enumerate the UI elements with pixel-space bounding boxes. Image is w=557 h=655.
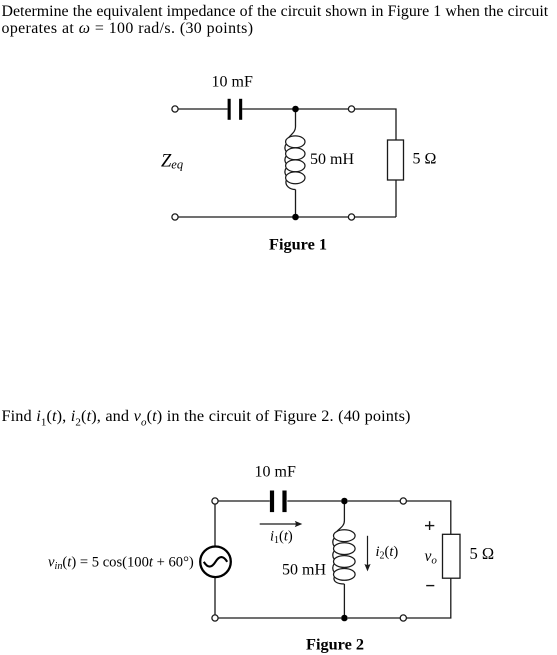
wire top middle (capacitor to right terminal) — [242, 108, 348, 110]
source sine wave — [204, 557, 227, 567]
problem 2 statement — [2, 406, 411, 428]
wire inductor bottom lead (fig2) — [343, 584, 345, 618]
svg-text:50 mH: 50 mH — [310, 151, 354, 168]
node junction top (fig2) — [341, 498, 348, 505]
arrow i2 — [364, 536, 370, 572]
wire top left (terminal to capacitor) — [178, 108, 227, 110]
svg-text:5 Ω: 5 Ω — [413, 151, 437, 168]
terminal top-right (fig2) — [400, 498, 406, 504]
capacitor C1 10 mF plate 1 — [228, 99, 231, 120]
wire inductor top lead — [295, 109, 297, 127]
terminal bottom-left — [172, 214, 178, 220]
node junction bottom — [292, 214, 299, 221]
wire top right segment — [355, 109, 396, 140]
capacitor C2 10 mF plate 1 — [270, 491, 274, 513]
inductor L2 50 mH coil (fig2) — [333, 521, 355, 585]
svg-text:5 Ω: 5 Ω — [470, 544, 495, 563]
svg-text:10 mF: 10 mF — [212, 74, 253, 91]
arrow i1 — [260, 521, 303, 527]
svg-text:i2(t): i2(t) — [376, 544, 399, 562]
wire right lower segment — [395, 180, 397, 217]
source Vin circle — [200, 547, 231, 578]
svg-text:10 mF: 10 mF — [255, 464, 296, 481]
node junction top — [292, 106, 299, 113]
svg-text:i1(t): i1(t) — [270, 529, 293, 547]
wire source top lead — [214, 504, 216, 545]
wire bottom — [178, 216, 348, 218]
wire bottom right — [355, 216, 396, 218]
svg-text:vo: vo — [425, 548, 438, 567]
terminal bottom-right (fig2) — [400, 615, 406, 621]
svg-text:Figure 1: Figure 1 — [269, 235, 327, 254]
svg-text:50 mH: 50 mH — [282, 562, 326, 579]
terminal top-left — [172, 106, 178, 112]
terminal bottom-middle — [348, 214, 354, 220]
wire bottom left — [218, 617, 341, 619]
svg-text:vin(t) = 5 cos(100t + 60°): vin(t) = 5 cos(100t + 60°) — [48, 555, 194, 573]
capacitor C2 10 mF plate 2 — [282, 491, 286, 513]
wire top right corner — [406, 501, 450, 534]
terminal bottom-left (fig2) — [212, 615, 218, 621]
label minus sign — [426, 585, 434, 587]
wire inductor top lead (fig2) — [343, 501, 345, 521]
wire top middle — [287, 500, 341, 502]
wire top left (terminal to capacitor) — [218, 500, 270, 502]
svg-text:Zeq: Zeq — [161, 152, 183, 172]
problem 1 statement — [2, 3, 549, 37]
wire bottom middle — [348, 617, 400, 619]
svg-text:Figure 2: Figure 2 — [306, 635, 364, 654]
capacitor C1 10 mF plate 2 — [239, 99, 242, 120]
wire source bottom lead — [214, 578, 216, 615]
wire junction to right terminal — [348, 500, 400, 502]
resistor R2 5 ohm (fig2) — [443, 534, 461, 578]
label plus sign — [425, 521, 434, 530]
wire right lower — [406, 578, 450, 618]
inductor L1 50 mH coil — [285, 127, 305, 190]
node junction bottom (fig2) — [341, 615, 348, 622]
resistor R1 5 ohm — [388, 140, 404, 180]
wire inductor bottom lead — [295, 190, 297, 218]
terminal top-middle — [348, 106, 354, 112]
terminal top-left (fig2) — [212, 498, 218, 504]
